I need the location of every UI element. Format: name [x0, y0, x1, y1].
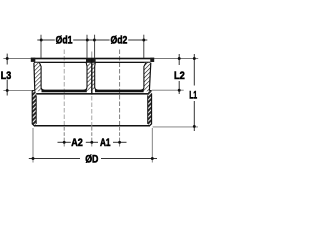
interior underside line — [36, 93, 148, 95]
left socket wall outline — [33, 63, 36, 91]
extension line top left (rim level) — [3, 58, 30, 60]
extension line OD left — [32, 128, 34, 163]
middle wall right face — [95, 63, 98, 91]
dot A left — [63, 141, 66, 144]
left socket floor — [42, 88, 87, 92]
dimension A2/A1 line — [58, 141, 127, 143]
extension line right socket bottom — [152, 89, 184, 91]
extension line A right — [119, 127, 121, 147]
dot L1 bottom — [193, 125, 196, 128]
svg-text:A1: A1 — [100, 137, 111, 149]
extension line left socket bottom — [3, 89, 33, 91]
dot L3 bottom — [6, 89, 9, 92]
left outer step — [32, 90, 35, 92]
dot Ød1 left — [40, 39, 43, 42]
right socket floor — [95, 88, 144, 92]
centerline middle — [91, 52, 93, 59]
dot L1 top — [193, 57, 196, 60]
dimension L3 line — [6, 54, 8, 65]
extension line d2 left — [94, 35, 96, 58]
svg-text:A2: A2 — [71, 137, 83, 149]
dimension Ød1 line — [37, 39, 147, 41]
dimension L1 line — [193, 54, 195, 86]
dot A right — [118, 141, 121, 144]
svg-text:L1: L1 — [189, 89, 197, 101]
left rim lip — [31, 58, 36, 62]
middle wall top block — [86, 58, 96, 62]
dot L3 top — [6, 57, 9, 60]
extension line d2 right — [143, 35, 145, 58]
dot L2 bottom — [178, 89, 181, 92]
extension line top right (rim level) — [154, 58, 198, 60]
svg-text:L3: L3 — [1, 70, 11, 82]
dot A middle — [90, 141, 93, 144]
dimension L2 line — [178, 54, 180, 65]
middle wall hatch — [84, 63, 97, 91]
extension line part bottom right — [153, 126, 198, 128]
extension line OD right — [151, 128, 153, 163]
rim top line — [31, 58, 154, 60]
right socket wall outline — [149, 63, 150, 91]
svg-text:L2: L2 — [174, 70, 185, 82]
centerline left socket — [63, 50, 65, 127]
right socket wall hatch — [141, 63, 151, 91]
centerline right socket — [119, 50, 121, 127]
part body group — [31, 58, 154, 127]
right outer step — [149, 91, 151, 94]
svg-text:Ød1: Ød1 — [56, 35, 73, 47]
dot L2 top — [178, 57, 181, 60]
bottom edge — [34, 125, 149, 127]
svg-text:ØD: ØD — [85, 154, 98, 166]
rim inner line — [34, 62, 150, 63]
dimension OD line — [29, 158, 157, 160]
right rim lip — [150, 58, 154, 62]
lower body left wall — [32, 91, 36, 126]
lower body right wall — [148, 91, 152, 126]
dot Ød2 left — [93, 39, 96, 42]
extension line A left (centerline continuation) — [63, 127, 65, 147]
left socket wall hatch — [34, 63, 43, 91]
extension line A middle — [91, 96, 93, 126]
extension line d1 right — [86, 35, 88, 58]
dot OD left — [32, 157, 35, 160]
svg-text:Ød2: Ød2 — [111, 35, 128, 47]
dot Ød2 right — [142, 39, 145, 42]
extension line d1 left — [40, 35, 42, 58]
dot Ød1 right — [86, 39, 89, 42]
middle wall left face — [84, 63, 87, 91]
middle wall center line — [91, 58, 93, 95]
dot OD right — [151, 157, 154, 160]
